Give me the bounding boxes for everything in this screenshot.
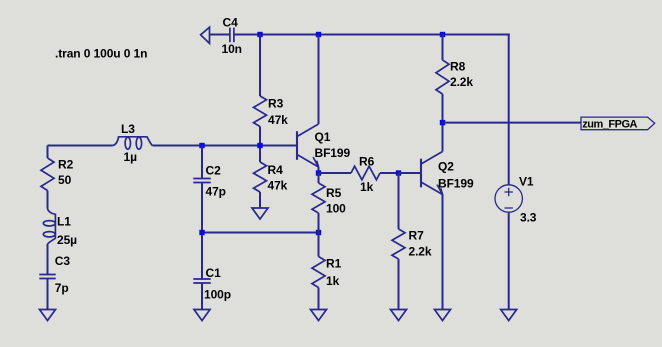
wire: R5 to lower rail <box>318 213 320 233</box>
wire: C1 to ground <box>201 283 203 309</box>
ground below C1 <box>194 310 210 321</box>
svg-text:25µ: 25µ <box>57 233 77 247</box>
node: R8 / Q2 collector / output <box>440 120 445 125</box>
resistor R2 <box>41 158 54 191</box>
ground below V1 <box>501 310 517 321</box>
wire: mid rail from corner to L3 <box>48 145 113 147</box>
resistor R4 <box>254 162 267 192</box>
svg-text:C1: C1 <box>206 266 222 280</box>
svg-text:R8: R8 <box>450 60 466 74</box>
node: top rail / Q1 collector <box>316 32 321 37</box>
svg-text:L1: L1 <box>57 215 71 229</box>
wire: C2 to lower rail <box>201 183 203 233</box>
input flag (left-pointing open triangle) at C4 <box>201 27 210 43</box>
node: mid rail / C2 <box>199 143 204 148</box>
svg-text:V1: V1 <box>519 175 534 189</box>
svg-text:R1: R1 <box>326 257 342 271</box>
resistor R7 <box>392 229 405 259</box>
svg-text:R5: R5 <box>326 186 342 200</box>
node: top rail / R3 <box>257 32 262 37</box>
capacitor C4 <box>229 28 231 43</box>
inductor L1 <box>48 209 56 245</box>
wire: top rail corner down to V1 <box>508 34 510 186</box>
wire: R6 to R7 node <box>380 172 399 174</box>
transistor Q2 <box>421 152 443 195</box>
wire: V1 to ground <box>508 212 510 309</box>
inductor L3 <box>113 137 153 146</box>
svg-text:R2: R2 <box>58 158 74 172</box>
svg-text:10n: 10n <box>222 42 242 56</box>
svg-text:BF199: BF199 <box>315 146 351 160</box>
svg-text:R7: R7 <box>409 229 425 243</box>
svg-text:50: 50 <box>58 173 72 187</box>
net flag zum_FPGA <box>581 117 655 130</box>
wire: node down to R7 <box>398 173 400 229</box>
wire: L3 to Q1 base <box>152 145 297 147</box>
node: lower rail / R5-R1 <box>316 230 321 235</box>
svg-text:100: 100 <box>326 202 346 216</box>
resistor R3 <box>254 96 267 127</box>
wire: mid rail down to C2 <box>201 146 203 179</box>
svg-text:1k: 1k <box>360 180 374 194</box>
wire: R8 to output node <box>442 94 444 123</box>
capacitor C1 <box>193 278 210 280</box>
node: top rail / R8 <box>440 32 445 37</box>
wire: top rail down to R8 <box>442 35 444 61</box>
svg-text:C3: C3 <box>55 254 71 268</box>
wire: R4 to ground <box>259 192 261 208</box>
svg-text:R6: R6 <box>359 155 375 169</box>
wire: Q2 collector to R8 node <box>442 123 444 152</box>
node: R6 / R7 / Q2 base <box>396 170 401 175</box>
wire: Q1 emitter to R5 node <box>318 167 320 173</box>
wire: top rail C4 to V1 corner <box>234 34 510 36</box>
ground below R1 <box>311 310 327 321</box>
capacitor C3 <box>39 274 55 276</box>
svg-text:.tran 0 100u 0 1n: .tran 0 100u 0 1n <box>55 47 147 61</box>
wire: corner down to R2 <box>47 146 49 159</box>
node: lower rail / C1-C2 <box>199 230 204 235</box>
wire: flag to C4 left plate <box>210 34 231 36</box>
wire: lower rail down to C1 <box>201 233 203 280</box>
svg-text:47k: 47k <box>268 113 288 127</box>
ground below R7 <box>391 310 407 321</box>
svg-text:L3: L3 <box>121 122 135 136</box>
svg-text:C2: C2 <box>206 164 222 178</box>
wire: emitter node to R6 <box>319 172 352 174</box>
ground below Q2 emitter <box>435 310 451 321</box>
ground below R4 <box>252 208 268 219</box>
wire: R3 to base node <box>259 127 261 146</box>
svg-text:R4: R4 <box>268 163 284 177</box>
svg-text:2.2k: 2.2k <box>409 245 432 259</box>
resistor R8 <box>436 60 449 94</box>
svg-text:3.3: 3.3 <box>520 211 537 225</box>
resistor R6 <box>351 166 380 180</box>
svg-text:R3: R3 <box>268 97 284 111</box>
svg-text:C4: C4 <box>223 16 239 30</box>
svg-text:zum_FPGA: zum_FPGA <box>582 118 637 130</box>
wire: R7 to ground <box>398 259 400 309</box>
wire: C3 to ground <box>47 279 49 310</box>
wire: top rail down to R3 <box>259 35 261 97</box>
ground below C3 <box>40 310 56 321</box>
node: mid rail / R3-R4 <box>257 143 262 148</box>
svg-text:Q1: Q1 <box>315 130 331 144</box>
wire: R2 to L1 <box>47 191 49 209</box>
svg-text:BF199: BF199 <box>438 177 474 191</box>
svg-text:47p: 47p <box>206 185 226 199</box>
wire: Q2 emitter to ground <box>442 194 444 309</box>
wire: output node to zum_FPGA flag <box>443 122 582 124</box>
transistor Q1 <box>297 124 319 167</box>
wire: lower rail C1 to R5/R1 node <box>202 232 319 234</box>
voltage source V1 <box>495 185 522 212</box>
svg-text:1µ: 1µ <box>124 150 138 164</box>
wire: lower rail down to R1 <box>318 233 320 257</box>
wire: Q1 collector to top rail <box>318 35 320 125</box>
svg-text:2.2k: 2.2k <box>450 75 473 89</box>
svg-text:100p: 100p <box>204 288 231 302</box>
svg-text:Q2: Q2 <box>438 160 454 174</box>
wire: R1 to ground <box>318 288 320 310</box>
resistor R1 <box>312 257 325 288</box>
svg-text:47k: 47k <box>268 179 288 193</box>
node: Q1 emitter / R5 / R6 <box>316 170 321 175</box>
svg-text:1k: 1k <box>326 274 340 288</box>
wire: emitter node down to R5 <box>318 173 320 183</box>
svg-text:7p: 7p <box>55 281 69 295</box>
resistor R5 <box>312 183 325 213</box>
wire: L1 to C3 <box>47 244 49 275</box>
wire: node to Q2 base <box>399 172 422 174</box>
capacitor C2 <box>193 178 210 180</box>
wire: base node down to R4 <box>259 146 261 163</box>
